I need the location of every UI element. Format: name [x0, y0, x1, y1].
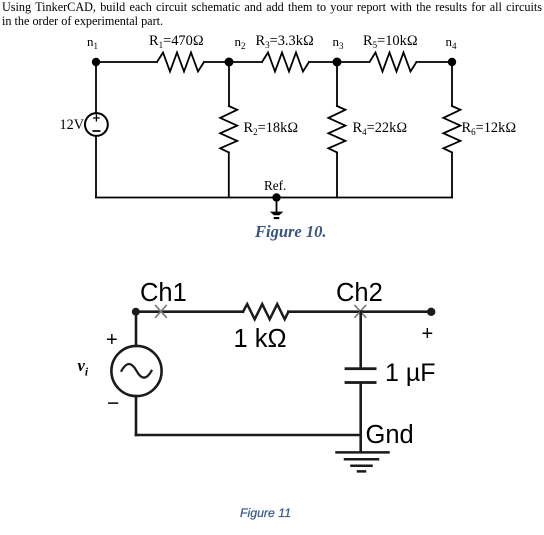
source plus sign	[94, 115, 99, 121]
wire Ch2 node down to capacitor	[359, 312, 362, 368]
fig11 bottom rail wire	[136, 434, 361, 437]
label source vi	[78, 358, 89, 379]
paragraph text	[2, 1, 542, 29]
probe mark Ch2	[355, 306, 366, 318]
capacitor C1 top plate	[345, 367, 377, 370]
label Ch1	[140, 281, 187, 307]
caption Figure 11	[240, 507, 291, 519]
node n4 junction dot	[448, 58, 456, 66]
node n1 junction dot	[92, 58, 100, 66]
wire n3 down to R4	[336, 62, 338, 106]
node n2 junction dot	[225, 58, 234, 67]
node fig11 right dot	[427, 308, 435, 316]
source vi circle	[111, 346, 161, 396]
wire R5 to n4	[417, 61, 453, 63]
capacitor C1 bottom plate	[345, 381, 377, 384]
resistor R5	[370, 53, 417, 72]
wire n3 to R5	[337, 61, 370, 63]
wire source to fig11 bottom rail	[135, 396, 138, 435]
ground Ref symbol	[270, 212, 283, 220]
source minus sign	[93, 130, 99, 132]
wire n4 down to R6	[451, 62, 453, 106]
resistor R1	[157, 53, 204, 72]
label resistor R3 value	[256, 34, 314, 48]
ground Gnd symbol	[337, 452, 389, 471]
wire left node down to source vi	[135, 312, 138, 346]
voltage source V1 12V circle	[85, 113, 108, 136]
label resistor R1 value	[149, 34, 204, 48]
label node n1	[87, 35, 98, 48]
bottom rail wire	[96, 197, 452, 199]
wire R4 to bottom rail	[336, 152, 338, 197]
wire R3 to n3	[309, 61, 337, 63]
probe mark Ch1	[156, 306, 167, 318]
label resistor 1 kOhm	[234, 327, 287, 353]
resistor R2	[220, 106, 237, 152]
label node n3	[333, 35, 344, 48]
label Ch2	[336, 281, 383, 307]
label resistor R2 value	[244, 121, 299, 135]
label ground Gnd	[366, 423, 414, 449]
wire source to bottom rail	[95, 136, 97, 198]
wire R2 to bottom rail	[228, 152, 230, 197]
label node Ref	[264, 179, 286, 192]
wire capacitor to ground	[359, 384, 362, 451]
wire R1 to n2	[204, 61, 229, 63]
wire resistor to Ch2 and right node	[288, 310, 431, 313]
wire R6 to bottom rail	[451, 152, 453, 197]
label source minus sign fig11	[107, 393, 119, 414]
node Ref junction dot	[272, 193, 280, 201]
wire fig11 left node to resistor	[136, 310, 244, 313]
resistor R3	[262, 53, 309, 72]
label capacitor 1 uF	[385, 361, 436, 386]
node fig11 left dot	[132, 308, 140, 316]
label source plus sign fig11	[106, 330, 118, 350]
wire n2 to R3	[229, 61, 262, 63]
wire top n1 to R1	[96, 61, 157, 63]
node n3 junction dot	[333, 58, 342, 67]
source vi sine wave	[122, 364, 152, 378]
resistor 1k	[243, 304, 288, 319]
ground Ref stem	[276, 198, 278, 212]
wire n1 down to source	[95, 62, 97, 113]
label resistor R4 value	[353, 121, 408, 135]
label node n2	[235, 35, 246, 48]
wire n2 down to R2	[228, 62, 230, 106]
label node n4	[446, 35, 457, 48]
label resistor R5 value	[363, 34, 418, 48]
caption Figure 10	[255, 224, 327, 241]
label plus at right node	[422, 324, 434, 344]
resistor R4	[328, 106, 345, 152]
label source 12V	[60, 118, 84, 132]
resistor R6	[443, 106, 460, 152]
label resistor R6 value	[462, 121, 517, 135]
